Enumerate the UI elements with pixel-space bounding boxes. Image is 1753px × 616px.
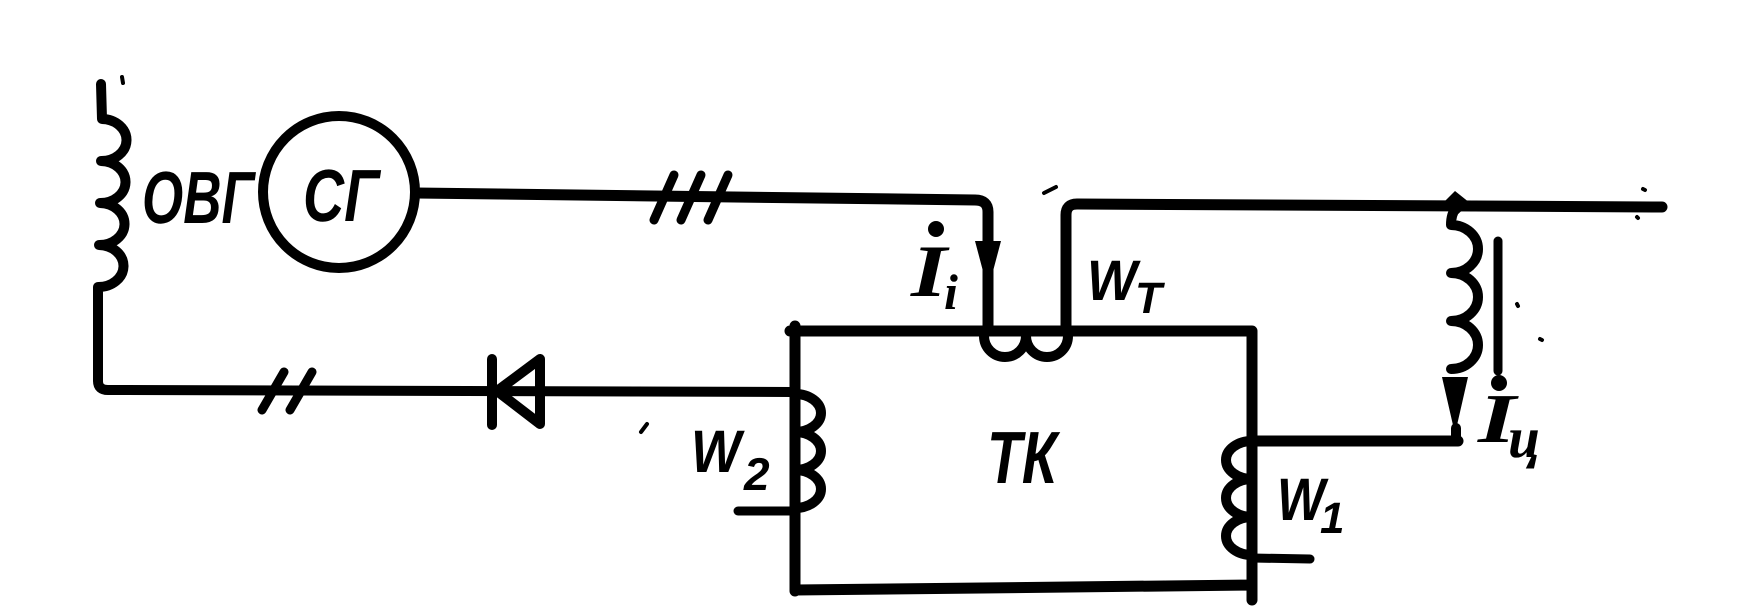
svg-text:ц: ц xyxy=(1508,405,1540,470)
svg-text:ТК: ТК xyxy=(987,416,1060,499)
svg-text:i: i xyxy=(944,264,958,320)
svg-text:W: W xyxy=(1087,249,1141,313)
svg-text:СГ: СГ xyxy=(303,154,382,237)
svg-text:1: 1 xyxy=(1320,494,1344,543)
svg-text:2: 2 xyxy=(743,448,770,500)
svg-text:W: W xyxy=(691,418,745,485)
svg-text:Т: Т xyxy=(1135,274,1165,323)
svg-text:ОВГ: ОВГ xyxy=(142,156,257,239)
